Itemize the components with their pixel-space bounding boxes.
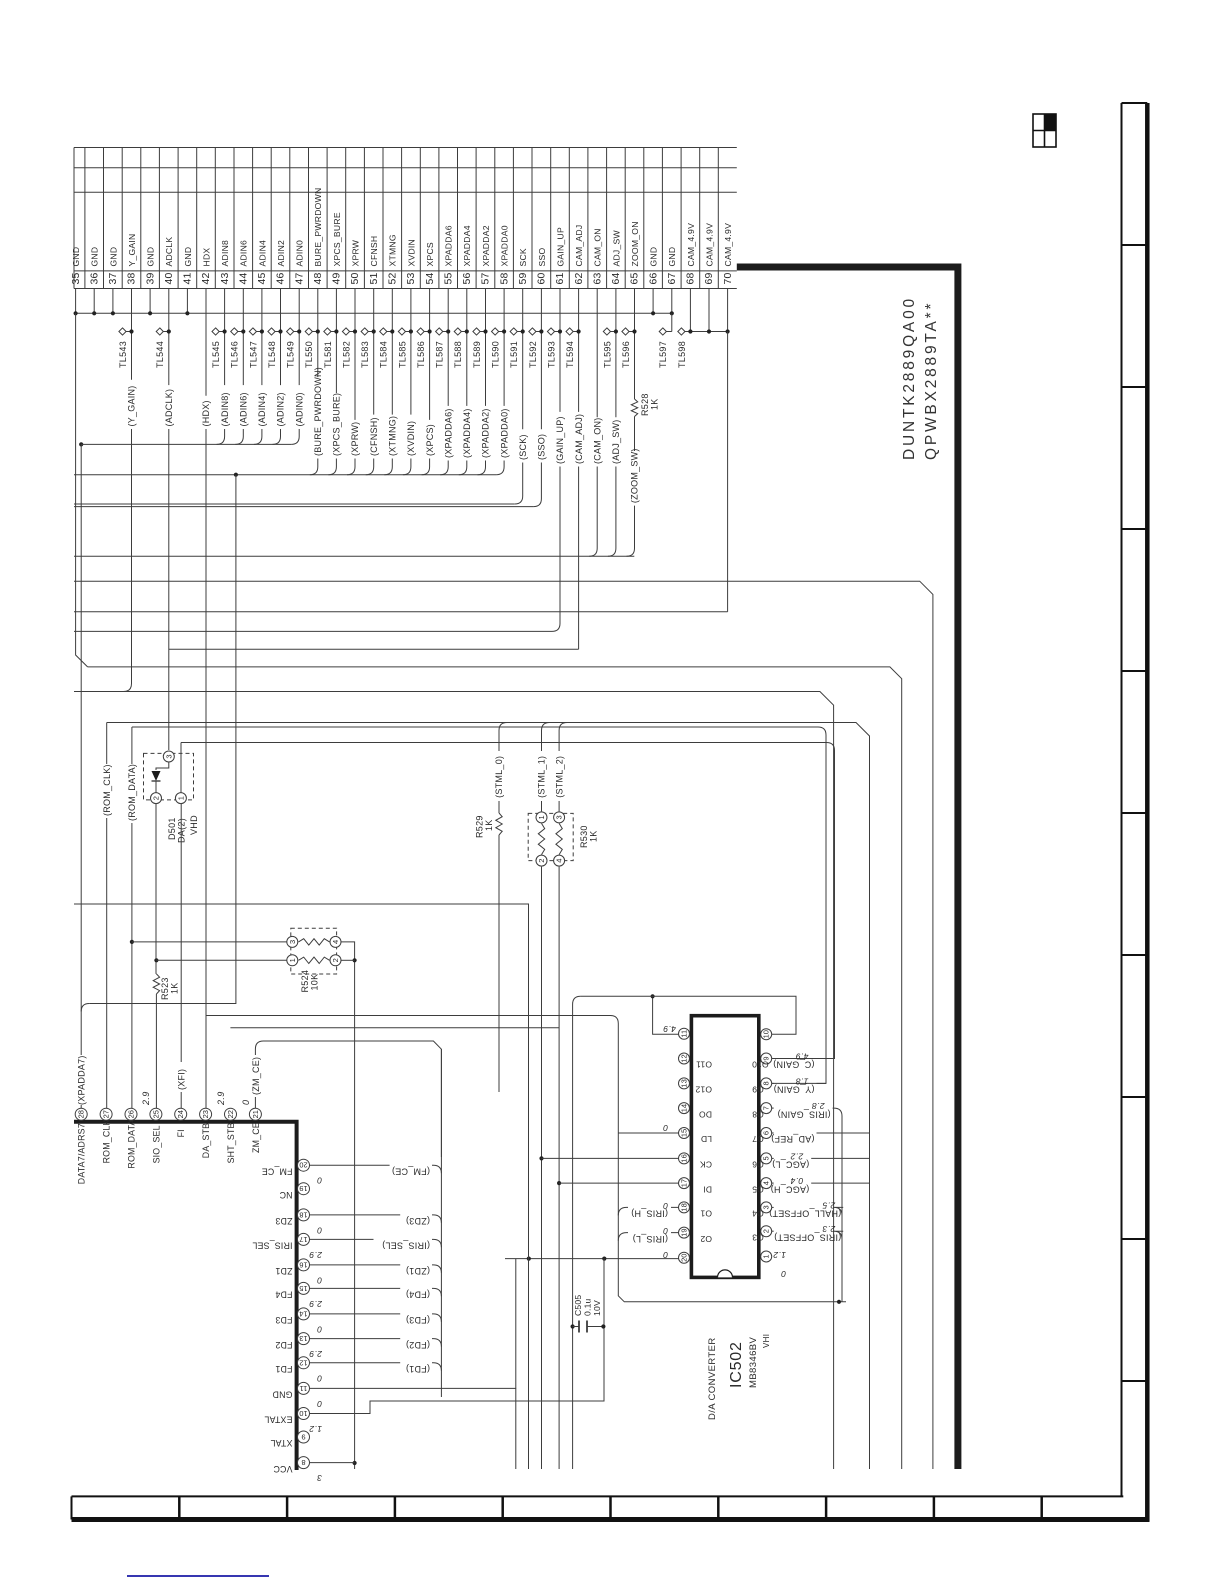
wire pin 42 net (HDX)	[205, 289, 207, 396]
GND bus	[76, 312, 672, 314]
test point TL592	[529, 328, 536, 335]
svg-text:GND: GND	[272, 1390, 292, 1400]
svg-text:8: 8	[301, 1458, 305, 1467]
net (STML_0)	[499, 723, 507, 752]
svg-text:TL585: TL585	[397, 341, 407, 368]
SCK line	[74, 503, 515, 505]
svg-text:(IRIS_SEL): (IRIS_SEL)	[382, 1241, 430, 1251]
svg-text:2.9: 2.9	[309, 1349, 323, 1359]
diode D501 DA(2)	[144, 753, 194, 800]
wire pin 43 net (ADIN8)	[224, 289, 226, 386]
svg-text:CAM_4.9V: CAM_4.9V	[704, 223, 714, 267]
wire pin 67 to GND bus	[671, 289, 673, 314]
svg-text:VHD: VHD	[189, 815, 199, 835]
svg-text:Y_GAIN: Y_GAIN	[127, 233, 137, 266]
IC502 pin 19	[679, 1227, 690, 1238]
svg-text:(ROM_DATA): (ROM_DATA)	[127, 764, 137, 821]
svg-text:FD3: FD3	[275, 1315, 292, 1325]
svg-text:(AD_REF): (AD_REF)	[771, 1134, 815, 1144]
svg-text:TL591: TL591	[509, 341, 519, 368]
net (ZD1) row	[310, 1264, 401, 1266]
wire pin 49 net (XPCS_BURE)	[335, 289, 337, 394]
svg-text:TL544: TL544	[155, 341, 165, 368]
wire pin 51 net (CFNSH)	[373, 289, 375, 415]
test point TL589	[473, 328, 480, 335]
test point TL583	[361, 328, 368, 335]
block pin 15 FD4	[298, 1282, 310, 1294]
svg-text:O2: O2	[700, 1234, 712, 1244]
svg-text:TL586: TL586	[416, 341, 426, 368]
svg-text:TL597: TL597	[658, 341, 668, 368]
test point TL549	[287, 328, 294, 335]
svg-text:1K: 1K	[484, 819, 494, 831]
svg-text:(XPADDA4): (XPADDA4)	[462, 408, 472, 458]
net (FD1) row	[310, 1362, 401, 1364]
wire pin 52 net (XTMNG)	[391, 289, 393, 415]
svg-text:1K: 1K	[650, 398, 660, 410]
block pin 16 ZD1	[298, 1259, 310, 1271]
svg-text:(ADCLK): (ADCLK)	[164, 389, 174, 427]
svg-text:1.2: 1.2	[309, 1424, 322, 1434]
svg-text:36: 36	[88, 272, 100, 284]
svg-text:O8: O8	[752, 1109, 764, 1119]
svg-text:XPRW: XPRW	[350, 239, 360, 266]
svg-text:ADIN2: ADIN2	[276, 240, 286, 267]
block pin 26 ROM_DATA	[125, 1108, 137, 1120]
svg-text:(XFI): (XFI)	[177, 1069, 187, 1090]
wire pin 47 net (ADIN0)	[298, 289, 300, 386]
test point TL598	[678, 328, 685, 335]
svg-text:59: 59	[517, 272, 529, 284]
IC502 pin 1	[761, 1251, 772, 1262]
run y=742.5 to IC pin9 riser	[181, 743, 835, 1059]
IC502 pin 13	[679, 1078, 690, 1089]
CAM_4.9V tie line pins 68-70	[685, 331, 728, 333]
svg-text:ADJ_SW: ADJ_SW	[611, 230, 621, 267]
svg-text:2: 2	[537, 859, 546, 863]
svg-text:66: 66	[647, 272, 659, 284]
bus line y=581 with 45deg to x=932.9	[74, 581, 933, 1469]
svg-text:QPWBX2889TA**: QPWBX2889TA**	[923, 301, 940, 460]
svg-text:TL549: TL549	[286, 341, 296, 368]
svg-text:GND: GND	[649, 247, 659, 267]
svg-text:ADIN6: ADIN6	[239, 240, 249, 267]
net (FD2) row	[310, 1338, 401, 1340]
svg-text:XVDIN: XVDIN	[406, 239, 416, 267]
GAIN_UP line	[74, 630, 552, 632]
wire pin70 CAM_4.9V	[727, 332, 729, 612]
svg-text:(ZD3): (ZD3)	[406, 1216, 430, 1226]
CAM_4.9V line y=611.8	[74, 611, 728, 613]
svg-text:ADCLK: ADCLK	[164, 237, 174, 267]
svg-text:52: 52	[387, 272, 399, 284]
svg-text:FM_CE: FM_CE	[262, 1166, 293, 1176]
svg-text:43: 43	[219, 272, 231, 284]
vertical x=572.6 from y=996 corner	[573, 996, 581, 1469]
svg-text:ZD3: ZD3	[275, 1216, 292, 1226]
svg-text:20: 20	[299, 1161, 307, 1170]
wire pin 55 net (XPADDA6)	[447, 289, 449, 406]
net (ROM_DATA) riser to block pin26	[131, 727, 133, 764]
svg-text:37: 37	[107, 272, 119, 284]
svg-text:3: 3	[288, 940, 297, 944]
wire pin 62 net (CAM_ADJ)	[578, 289, 580, 412]
svg-text:14: 14	[680, 1104, 689, 1112]
test point TL544	[156, 328, 163, 335]
svg-text:2.8: 2.8	[812, 1101, 826, 1111]
IC502 pin 16	[679, 1153, 690, 1164]
svg-text:R530: R530	[579, 825, 589, 848]
test point TL597	[659, 328, 666, 335]
svg-text:13: 13	[299, 1334, 307, 1343]
block pin 17 IRIS_SEL	[298, 1233, 310, 1245]
svg-text:10: 10	[762, 1030, 771, 1038]
block pin 24 FI	[175, 1108, 187, 1120]
wire pin 48 net (BURE_PWRDOWN)	[317, 289, 319, 378]
wire pin 40 net (ADCLK)	[168, 289, 170, 386]
svg-text:(XVDIN): (XVDIN)	[406, 421, 416, 456]
svg-text:(FD3): (FD3)	[406, 1315, 430, 1325]
revision underline (blue)	[127, 1575, 269, 1577]
IC502 pin 2	[761, 1226, 772, 1237]
svg-text:13: 13	[680, 1079, 689, 1087]
wire pin 66 to GND bus	[652, 289, 654, 314]
svg-text:0: 0	[663, 1123, 668, 1133]
svg-text:69: 69	[703, 272, 715, 284]
svg-text:(ZOOM_SW): (ZOOM_SW)	[630, 448, 640, 503]
svg-text:BURE_PWRDOWN: BURE_PWRDOWN	[313, 188, 323, 267]
svg-text:CAM_ON: CAM_ON	[593, 228, 603, 266]
svg-text:1K: 1K	[170, 982, 180, 994]
svg-text:0: 0	[317, 1324, 322, 1334]
svg-text:EXTAL: EXTAL	[264, 1415, 292, 1425]
wire pin 45 net (ADIN4)	[261, 289, 263, 386]
svg-text:TL590: TL590	[491, 341, 501, 368]
svg-text:FD2: FD2	[275, 1340, 292, 1350]
svg-text:(FD4): (FD4)	[406, 1290, 430, 1300]
IC502 pin 20	[679, 1252, 690, 1263]
wire pin 54 net (XPCS)	[429, 289, 431, 420]
svg-text:ZOOM_ON: ZOOM_ON	[630, 221, 640, 266]
svg-text:19: 19	[680, 1228, 689, 1236]
svg-text:(ADIN0): (ADIN0)	[294, 392, 304, 426]
test point TL588	[454, 328, 461, 335]
svg-text:R528: R528	[640, 393, 650, 416]
svg-text:20: 20	[680, 1254, 689, 1262]
svg-text:24: 24	[176, 1110, 185, 1118]
svg-text:39: 39	[144, 272, 156, 284]
svg-text:GAIN_UP: GAIN_UP	[555, 227, 565, 266]
IC502 pin 10	[761, 1029, 772, 1040]
svg-text:0: 0	[317, 1275, 322, 1285]
svg-text:(SCK): (SCK)	[518, 434, 528, 460]
svg-text:9: 9	[301, 1433, 305, 1442]
svg-text:TL589: TL589	[472, 341, 482, 368]
wire pin 60 net (SSO)	[540, 289, 542, 430]
svg-text:0: 0	[241, 1100, 251, 1105]
svg-text:10K: 10K	[310, 974, 320, 991]
wire pin 41 to GND bus	[186, 289, 188, 314]
svg-text:(ADJ_SW): (ADJ_SW)	[611, 420, 621, 465]
bundle vertical x=441.4	[440, 1049, 442, 1397]
svg-text:HDX: HDX	[201, 248, 211, 267]
svg-text:SCK: SCK	[518, 248, 528, 266]
connector CN top (pins 35-70)	[74, 147, 737, 149]
svg-text:1: 1	[288, 958, 297, 962]
svg-text:4: 4	[555, 859, 564, 863]
svg-text:ROM_DATA: ROM_DATA	[126, 1119, 136, 1168]
svg-text:65: 65	[629, 272, 641, 284]
svg-text:CAM_4.9V: CAM_4.9V	[723, 223, 733, 267]
svg-text:(ADIN4): (ADIN4)	[257, 392, 267, 426]
svg-text:SIO_SEL: SIO_SEL	[151, 1125, 161, 1163]
svg-text:XPCS_BURE: XPCS_BURE	[332, 212, 342, 266]
svg-text:GND: GND	[146, 247, 156, 267]
resistor R528 1K	[631, 399, 637, 417]
svg-text:DI: DI	[703, 1184, 712, 1194]
svg-text:ADIN0: ADIN0	[295, 240, 305, 267]
test point TL584	[380, 328, 387, 335]
svg-text:TL587: TL587	[435, 341, 445, 368]
svg-text:64: 64	[610, 272, 622, 284]
svg-text:46: 46	[275, 272, 287, 284]
svg-text:2.9: 2.9	[216, 1091, 226, 1106]
svg-text:14: 14	[299, 1309, 307, 1318]
svg-text:O12: O12	[695, 1085, 712, 1095]
(XFI) riser block pin24 / D501 pin1	[180, 743, 182, 794]
test point TL586	[417, 328, 424, 335]
vertical x=604 pin20 to C505	[603, 1259, 605, 1327]
svg-text:1K: 1K	[589, 830, 599, 842]
IC pin20 wire	[505, 1258, 679, 1260]
svg-text:D501: D501	[167, 817, 177, 840]
svg-text:15: 15	[299, 1284, 307, 1293]
wire pin 65	[634, 289, 636, 400]
svg-text:2.9: 2.9	[141, 1091, 151, 1106]
svg-text:3: 3	[555, 815, 564, 819]
svg-text:TL592: TL592	[528, 341, 538, 368]
svg-text:ZD1: ZD1	[275, 1266, 292, 1276]
STML_1 wire down	[541, 801, 543, 811]
svg-text:63: 63	[591, 272, 603, 284]
svg-text:21: 21	[251, 1110, 260, 1118]
(XPADDA7) riser block pin28	[81, 1004, 89, 1012]
svg-text:O11: O11	[696, 1060, 712, 1070]
IC502 pin 9	[761, 1053, 772, 1064]
svg-text:54: 54	[424, 272, 436, 284]
IC pin16 wire to STML_1	[542, 1157, 679, 1159]
svg-text:ADIN8: ADIN8	[220, 240, 230, 267]
ADIN bus line y=444.4	[81, 443, 291, 445]
svg-text:TL581: TL581	[323, 341, 333, 368]
test point TL548	[268, 328, 275, 335]
svg-text:XPCS: XPCS	[425, 242, 435, 266]
svg-text:(XPADDA2): (XPADDA2)	[481, 408, 491, 458]
test point TL585	[398, 328, 405, 335]
svg-text:ADIN4: ADIN4	[257, 240, 267, 267]
svg-text:O10: O10	[752, 1060, 769, 1070]
y=996.3 line to pin10 riser	[581, 996, 796, 1034]
svg-text:58: 58	[498, 272, 510, 284]
wire pin 58 net (XPADDA0)	[503, 289, 505, 406]
IC pin1 stub	[765, 1261, 767, 1263]
svg-text:(CAM_ADJ): (CAM_ADJ)	[574, 414, 584, 464]
svg-text:TL594: TL594	[565, 341, 575, 368]
svg-text:2.5: 2.5	[822, 1200, 836, 1210]
net (IRIS_SEL) row	[310, 1238, 374, 1240]
svg-text:(IRIS_H): (IRIS_H)	[631, 1209, 668, 1219]
IC502 pin 6	[761, 1128, 772, 1139]
svg-text:70: 70	[722, 272, 734, 284]
svg-text:18: 18	[299, 1210, 307, 1219]
svg-text:C505: C505	[573, 1295, 583, 1316]
svg-text:TL547: TL547	[248, 341, 258, 368]
svg-text:4.9: 4.9	[795, 1052, 808, 1062]
svg-text:ROM_CLK: ROM_CLK	[102, 1119, 112, 1163]
test point TL594	[566, 328, 573, 335]
wire pin 39 to GND bus	[149, 289, 151, 314]
wire x=235.9 from data bus to y=1003.5	[89, 475, 236, 1004]
svg-text:(XPCS_BURE): (XPCS_BURE)	[332, 393, 342, 456]
test point TL550	[305, 328, 312, 335]
ROM_CLK run y=722.5 to x=869.5	[107, 723, 870, 1470]
block pin 13 FD2	[298, 1333, 310, 1345]
IC502 pin 11	[679, 1028, 690, 1039]
svg-text:0.4: 0.4	[790, 1176, 803, 1186]
wire pin 61 net (GAIN_UP)	[559, 289, 561, 412]
svg-text:2: 2	[331, 958, 340, 962]
block pin 20 FM_CE	[298, 1159, 310, 1171]
svg-text:O5: O5	[752, 1184, 764, 1194]
vertical x=528.5 from y=904	[74, 904, 529, 1469]
vertical x=618.3 w/ 45 to y=1301.8	[618, 1024, 846, 1302]
svg-text:17: 17	[680, 1179, 689, 1187]
svg-text:48: 48	[312, 272, 324, 284]
svg-text:GND: GND	[183, 247, 193, 267]
svg-text:O6: O6	[752, 1160, 764, 1170]
block pin 27 ROM_CLK	[100, 1108, 112, 1120]
svg-text:O3: O3	[752, 1232, 764, 1242]
GND(11) row corner down x=515.8	[310, 1388, 516, 1469]
net (FD4) row	[310, 1287, 401, 1289]
svg-text:26: 26	[127, 1110, 136, 1118]
svg-text:CAM_ADJ: CAM_ADJ	[574, 225, 584, 267]
test point TL590	[492, 328, 499, 335]
svg-text:D/A CONVERTER: D/A CONVERTER	[707, 1337, 718, 1420]
svg-text:O4: O4	[752, 1209, 764, 1219]
svg-text:R529: R529	[475, 815, 485, 838]
svg-text:R524: R524	[300, 970, 310, 993]
wire pin 59 net (SCK)	[522, 289, 524, 430]
test point TL593	[547, 328, 554, 335]
svg-text:28: 28	[77, 1110, 86, 1118]
svg-text:FD1: FD1	[275, 1364, 292, 1374]
capacitor C505 0.1u	[573, 1326, 580, 1328]
op IC502 D/A converter box	[691, 1016, 758, 1278]
svg-text:GND: GND	[667, 247, 677, 267]
svg-text:25: 25	[151, 1110, 160, 1118]
test point TL587	[436, 328, 443, 335]
svg-text:19: 19	[299, 1184, 307, 1193]
IC502 pin 3	[761, 1202, 772, 1213]
svg-text:2.9: 2.9	[309, 1250, 323, 1260]
svg-text:ZM_CE: ZM_CE	[251, 1122, 261, 1153]
svg-text:(CAM_ON): (CAM_ON)	[592, 418, 602, 465]
svg-text:(ROM_CLK): (ROM_CLK)	[102, 764, 112, 816]
svg-text:10V: 10V	[592, 1300, 602, 1316]
svg-text:(XPCS): (XPCS)	[425, 424, 435, 456]
svg-text:NC: NC	[279, 1190, 293, 1200]
svg-text:11: 11	[680, 1030, 689, 1038]
R524 pin1 wire to D501 pin2 line	[156, 959, 286, 961]
wire pin 53 net (XVDIN)	[410, 289, 412, 415]
svg-text:1: 1	[537, 815, 546, 819]
svg-text:O1: O1	[700, 1209, 712, 1219]
svg-text:3: 3	[164, 754, 173, 758]
block pin 25 SIO_SEL	[150, 1108, 162, 1120]
svg-text:(ADIN8): (ADIN8)	[220, 392, 230, 426]
block pin 21 ZM_CE	[249, 1108, 261, 1120]
svg-text:(BURE_PWRDOWN): (BURE_PWRDOWN)	[313, 367, 323, 456]
svg-text:(HDX): (HDX)	[201, 400, 211, 426]
svg-text:TL583: TL583	[360, 341, 370, 368]
wire pin 57 net (XPADDA2)	[485, 289, 487, 406]
svg-text:18: 18	[680, 1203, 689, 1211]
svg-text:GND: GND	[71, 247, 81, 267]
svg-text:11: 11	[300, 1384, 308, 1393]
svg-text:FI: FI	[176, 1129, 186, 1137]
svg-text:49: 49	[331, 272, 343, 284]
svg-text:10: 10	[299, 1409, 307, 1418]
STML_2 wire down	[558, 801, 560, 811]
wire pin 38 net (Y_GAIN)	[131, 289, 133, 380]
svg-text:GND: GND	[90, 247, 100, 267]
svg-text:2.3: 2.3	[822, 1224, 836, 1234]
svg-text:17: 17	[299, 1235, 307, 1244]
IC502 pin 7	[761, 1103, 772, 1114]
svg-text:27: 27	[102, 1110, 111, 1118]
R529 down	[498, 835, 500, 1092]
svg-text:(ZD1): (ZD1)	[406, 1266, 430, 1276]
svg-text:47: 47	[293, 272, 305, 284]
svg-text:41: 41	[182, 272, 194, 284]
IC pin17 wire to STML_2	[559, 1182, 678, 1184]
IC502 pin 18	[679, 1202, 690, 1213]
block pin 12 FD1	[298, 1357, 310, 1369]
svg-text:VCC: VCC	[273, 1464, 293, 1474]
svg-text:XPADDA0: XPADDA0	[500, 225, 510, 266]
block pin 9 XTAL	[298, 1431, 310, 1443]
svg-text:0: 0	[663, 1250, 668, 1260]
svg-text:62: 62	[573, 272, 585, 284]
svg-text:SHT_STB: SHT_STB	[226, 1122, 236, 1163]
block pin 19 NC	[298, 1183, 310, 1195]
svg-text:51: 51	[368, 272, 380, 284]
svg-text:IC502: IC502	[728, 1341, 745, 1388]
svg-text:CAM_4.9V: CAM_4.9V	[686, 223, 696, 267]
block pin 28 DATA7/ADRS7	[75, 1108, 87, 1120]
svg-text:4.9: 4.9	[663, 1024, 676, 1034]
IC502 pin 5	[761, 1153, 772, 1164]
svg-text:(CFNSH): (CFNSH)	[369, 417, 379, 456]
bottom zone strip	[72, 1495, 1124, 1497]
svg-text:16: 16	[680, 1154, 689, 1162]
svg-text:TL545: TL545	[211, 341, 221, 368]
svg-text:0: 0	[317, 1176, 322, 1186]
wire pin 64 net (ADJ_SW)	[615, 289, 617, 418]
svg-text:3: 3	[317, 1473, 322, 1483]
resistor R523 1K	[153, 974, 159, 994]
